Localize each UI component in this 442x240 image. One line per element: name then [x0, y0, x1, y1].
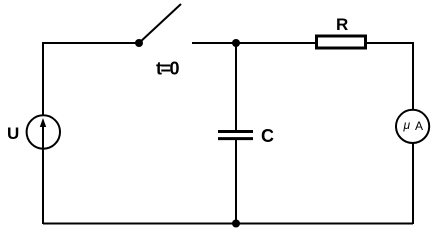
wire capacitor branch (top) [235, 43, 237, 130]
svg-text:C: C [261, 126, 274, 146]
capacitor C1 [218, 132, 253, 139]
wire top-left segment [43, 42, 139, 44]
wire left vertical (top) [42, 42, 44, 115]
wire right vertical (bottom) [412, 143, 414, 224]
label U [7, 124, 19, 143]
label t=0 [156, 59, 180, 79]
voltage source U1 [27, 115, 60, 149]
wire node A to resistor [236, 42, 315, 44]
wire left vertical (bottom) [42, 149, 44, 224]
svg-text:U: U [7, 124, 19, 143]
wire bottom [43, 223, 413, 225]
wire capacitor branch (bottom) [235, 140, 237, 224]
node B junction (bottom of capacitor) [232, 220, 240, 228]
ammeter M1 [396, 110, 429, 143]
svg-text:μ: μ [403, 118, 411, 132]
label C [261, 126, 274, 146]
label R [336, 15, 348, 34]
wire right vertical (top) [412, 42, 414, 110]
wire resistor to top-right corner [367, 42, 413, 44]
svg-text:t=0: t=0 [156, 59, 180, 79]
switch S1 pivot junction [135, 39, 143, 47]
wire switch contact to node A [192, 42, 236, 44]
resistor R1 [317, 36, 366, 48]
switch S1 blade [139, 4, 181, 43]
svg-text:R: R [336, 15, 348, 34]
node A junction (top of capacitor) [232, 39, 240, 47]
svg-text:A: A [415, 119, 423, 133]
